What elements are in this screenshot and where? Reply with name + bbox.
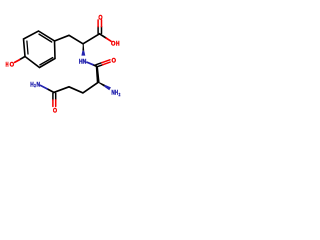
- svg-text:O: O: [10, 62, 15, 68]
- svg-text:HN: HN: [79, 60, 86, 66]
- svg-text:NH: NH: [111, 91, 118, 97]
- svg-text:O: O: [112, 58, 117, 64]
- svg-text:H: H: [6, 62, 9, 68]
- svg-text:N: N: [37, 83, 41, 89]
- svg-text:2: 2: [119, 92, 121, 97]
- svg-text:O: O: [53, 109, 57, 115]
- svg-text:O: O: [98, 15, 102, 21]
- svg-text:H: H: [116, 41, 120, 47]
